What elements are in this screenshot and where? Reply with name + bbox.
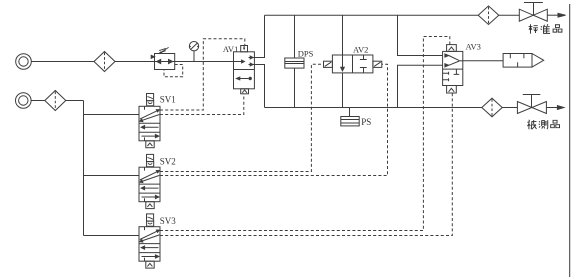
valve SV3 body bbox=[139, 227, 160, 262]
wire bbox=[66, 100, 84, 102]
wire bbox=[502, 107, 517, 109]
hand valve V2 bbox=[517, 95, 546, 114]
valve SV2 body bbox=[139, 167, 160, 202]
svg-text:SV1: SV1 bbox=[160, 95, 176, 105]
svg-text:AV3: AV3 bbox=[466, 42, 481, 52]
pilot line SV1 to AV1 bottom bbox=[160, 94, 244, 115]
pilot line SV3 to AV3 bottom bbox=[160, 93, 452, 236]
nozzle probe bbox=[503, 54, 544, 68]
wire AV2 drop bbox=[342, 15, 344, 55]
wire AV3 upper feed bbox=[398, 15, 443, 55]
wire bbox=[546, 107, 558, 109]
wire DPS drop bbox=[294, 15, 296, 58]
valve AV3 spring cap bbox=[447, 86, 457, 94]
wire bbox=[115, 61, 155, 63]
valve AV1 spring cap bbox=[241, 89, 249, 94]
arrow out standard bbox=[558, 13, 566, 17]
valve AV3 body bbox=[443, 51, 463, 85]
wire bbox=[175, 61, 234, 63]
valve SV2 spring cap bbox=[146, 202, 154, 209]
pressure gauge G1 bbox=[189, 42, 198, 62]
wire AV1 out lower bbox=[254, 65, 264, 108]
border frame right bbox=[569, 4, 571, 277]
valve SV1 solenoid bbox=[147, 94, 154, 106]
wire main rail bbox=[265, 107, 482, 109]
valve SV1 body bbox=[139, 106, 160, 141]
hand valve V1 bbox=[519, 3, 547, 22]
wire AV1 out upper bbox=[254, 15, 264, 57]
svg-text:DPS: DPS bbox=[298, 48, 314, 58]
wire SV1 feed bbox=[84, 114, 140, 116]
valve AV3 pilot cap bbox=[447, 45, 457, 52]
air source P1 bbox=[16, 54, 32, 70]
wire AV3 output bbox=[463, 60, 503, 62]
wire AV3 lower feed bbox=[398, 65, 443, 107]
filter F2 bbox=[45, 91, 66, 111]
pilot line SV3 to AV3 top bbox=[160, 37, 450, 231]
pilot line SV1 to AV1 top bbox=[160, 39, 245, 110]
valve AV2 right pilot bbox=[373, 61, 382, 67]
pressure switch PS bbox=[341, 117, 359, 126]
arrow out test bbox=[557, 106, 564, 110]
valve SV2 solenoid bbox=[147, 154, 154, 166]
valve SV1 spring cap bbox=[146, 141, 154, 148]
wire PS stub bbox=[349, 108, 351, 117]
pressure switch DPS bbox=[285, 58, 304, 68]
regulator pilot dashed loop bbox=[164, 65, 183, 77]
valve AV2 body bbox=[332, 55, 373, 73]
wire SV3 feed bbox=[84, 235, 140, 237]
wire bbox=[499, 14, 520, 16]
pilot line SV2 to AV2 right bbox=[160, 64, 388, 175]
wire bbox=[31, 61, 94, 63]
wire trunk bbox=[83, 101, 85, 236]
label test 被测品 bbox=[527, 120, 559, 129]
valve SV3 solenoid bbox=[147, 214, 154, 226]
wire DPS to main rail bbox=[294, 68, 296, 107]
wire top rail bbox=[265, 14, 479, 16]
regulator REG1 bbox=[151, 47, 175, 69]
wire AV2 to main rail bbox=[342, 73, 344, 108]
svg-text:SV2: SV2 bbox=[160, 157, 176, 167]
wire bbox=[547, 14, 558, 16]
air source P2 bbox=[15, 93, 31, 109]
svg-text:AV2: AV2 bbox=[353, 44, 368, 54]
valve AV2 left pilot bbox=[324, 61, 333, 67]
svg-text:PS: PS bbox=[361, 117, 371, 127]
label standard 标准品 bbox=[529, 24, 562, 33]
svg-text:SV3: SV3 bbox=[160, 216, 177, 226]
filter F1 bbox=[94, 52, 115, 72]
filter F3 bbox=[478, 6, 499, 25]
valve AV1 body bbox=[234, 52, 255, 89]
wire SV2 feed bbox=[84, 175, 140, 177]
pilot line SV2 to AV2 left bbox=[160, 64, 324, 171]
valve SV3 spring cap bbox=[146, 261, 154, 268]
filter F4 bbox=[482, 98, 502, 117]
valve AV1 pilot cap bbox=[241, 46, 248, 52]
wire bbox=[31, 100, 45, 102]
